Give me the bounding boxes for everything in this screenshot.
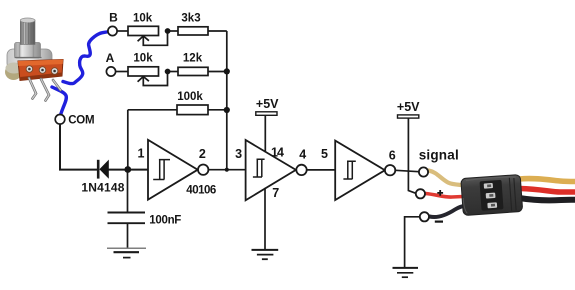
svg-text:14: 14: [271, 145, 284, 159]
svg-text:+5V: +5V: [256, 97, 279, 111]
svg-text:3: 3: [235, 147, 242, 161]
svg-text:10k: 10k: [133, 53, 153, 65]
svg-text:5: 5: [321, 147, 328, 161]
svg-text:6: 6: [389, 148, 396, 162]
svg-text:1N4148: 1N4148: [81, 180, 124, 194]
svg-text:10k: 10k: [133, 12, 153, 24]
svg-text:7: 7: [272, 186, 279, 200]
svg-text:signal: signal: [419, 148, 459, 163]
svg-text:B: B: [109, 10, 118, 24]
svg-text:+5V: +5V: [397, 100, 420, 114]
svg-text:3k3: 3k3: [181, 12, 200, 24]
svg-text:4: 4: [299, 148, 306, 162]
svg-text:COM: COM: [68, 114, 94, 126]
svg-text:100k: 100k: [177, 91, 203, 103]
svg-text:A: A: [106, 51, 115, 65]
svg-text:1: 1: [138, 146, 145, 160]
svg-text:12k: 12k: [183, 53, 203, 65]
svg-text:40106: 40106: [186, 184, 216, 196]
svg-text:2: 2: [199, 147, 206, 161]
svg-text:100nF: 100nF: [149, 214, 181, 226]
